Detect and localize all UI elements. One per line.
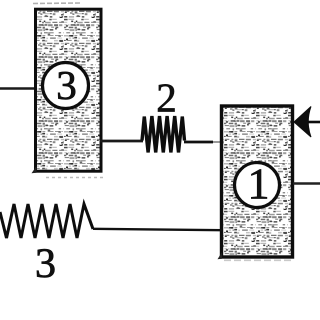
wire left wall to mass 3 [0,87,36,90]
wire spring 2 to mass 1 [184,141,213,144]
force arrow into mass 1 [308,121,320,124]
mass block 3 [36,9,102,171]
wire spring 3 to mass 1 [93,229,222,230]
scan artifact below mass 3 [46,177,103,179]
circle label 3 [43,63,89,109]
wire mass 1 right wall [293,182,320,185]
scan shadow below mass 1 [224,259,292,261]
wire mass 3 to spring 2 [100,140,143,143]
spring 2 [142,116,185,153]
circle label 1 [235,163,280,208]
scan artifact above mass 3 [33,2,80,5]
label 3 [37,249,54,277]
spring 3 [0,204,93,238]
label 2 [158,84,174,111]
mass block 1 [222,106,293,257]
corner flare mass 1 [218,252,223,259]
corner flare mass 3 [32,166,37,173]
